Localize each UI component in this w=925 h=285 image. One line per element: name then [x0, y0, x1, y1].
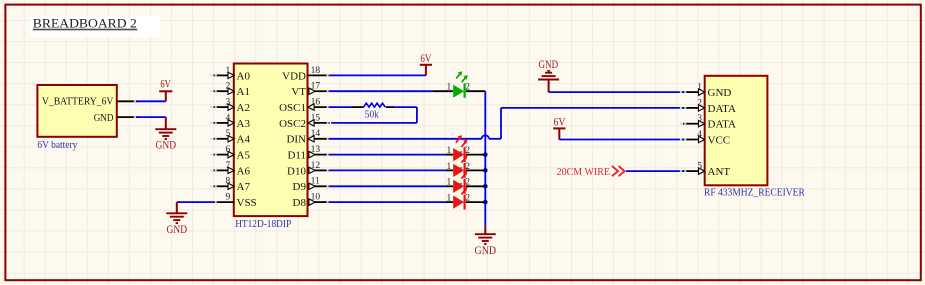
svg-text:2: 2 — [465, 146, 470, 156]
svg-text:6V: 6V — [160, 78, 171, 90]
svg-text:4: 4 — [697, 130, 702, 140]
svg-text:5: 5 — [226, 129, 231, 139]
svg-text:11: 11 — [311, 177, 320, 187]
IC U1 HT12D-18DIP body — [234, 64, 308, 231]
svg-text:10: 10 — [311, 193, 321, 203]
junction at LED DS4 cathode — [483, 184, 488, 189]
svg-text:9: 9 — [226, 193, 231, 203]
svg-text:DIN: DIN — [286, 134, 306, 146]
svg-text:A7: A7 — [237, 181, 251, 193]
power 6V (battery) — [159, 78, 172, 101]
svg-text:D11: D11 — [287, 150, 306, 162]
svg-text:A2: A2 — [237, 102, 250, 114]
svg-text:4: 4 — [226, 113, 231, 123]
svg-text:GND: GND — [539, 59, 559, 71]
svg-text:GND: GND — [156, 139, 177, 151]
pin 15 OSC2 — [279, 113, 333, 130]
svg-text:17: 17 — [311, 82, 321, 92]
wire D9 to LED — [330, 185, 446, 187]
wire DIN to receiver DATA — [330, 108, 683, 139]
svg-text:A1: A1 — [237, 86, 250, 98]
svg-text:6: 6 — [226, 145, 231, 155]
svg-text:1: 1 — [447, 162, 452, 172]
wire antenna to receiver ANT — [626, 170, 683, 172]
LED DS1 green — [433, 71, 485, 98]
svg-text:5: 5 — [697, 162, 702, 172]
wire 6V to receiver VCC — [559, 139, 683, 141]
ground (battery) — [155, 117, 176, 151]
svg-text:12: 12 — [311, 161, 321, 171]
svg-text:1: 1 — [447, 178, 452, 188]
svg-text:1: 1 — [226, 66, 231, 76]
svg-text:2: 2 — [465, 162, 470, 172]
battery pin 6V stub — [117, 100, 141, 102]
svg-text:3: 3 — [226, 98, 231, 108]
wire D11 to LED — [330, 154, 446, 156]
svg-text:D10: D10 — [287, 165, 306, 177]
pin 12 D10 — [287, 161, 333, 178]
svg-text:OSC2: OSC2 — [279, 118, 306, 130]
svg-text:1: 1 — [697, 83, 702, 93]
junction at LED DS5 cathode — [483, 200, 488, 205]
svg-text:HT12D-18DIP: HT12D-18DIP — [235, 219, 291, 230]
svg-text:A3: A3 — [237, 118, 251, 130]
svg-text:1: 1 — [447, 194, 452, 204]
svg-text:GND: GND — [94, 112, 114, 124]
svg-text:GND: GND — [475, 245, 497, 257]
pin 2 DATA (receiver) — [680, 98, 736, 115]
wire resistor to OSC2 — [331, 107, 417, 123]
svg-text:A6: A6 — [237, 165, 251, 177]
RF module U2 RF 433MHZ_RECEIVER body — [704, 76, 805, 199]
junction at LED DS3 cathode — [483, 168, 488, 173]
pin 2 A1 — [210, 82, 250, 99]
svg-text:VT: VT — [291, 86, 306, 98]
ground (receiver GND, inverted) — [538, 59, 559, 92]
pin 3 A2 — [210, 98, 250, 115]
svg-text:2: 2 — [465, 194, 470, 204]
battery BT (V_BATTERY_6V) — [37, 85, 116, 151]
svg-text:V_BATTERY_6V: V_BATTERY_6V — [42, 95, 114, 107]
LED DS5 red — [445, 183, 485, 210]
pin 7 A6 — [210, 161, 250, 178]
svg-text:2: 2 — [697, 98, 702, 108]
svg-text:18: 18 — [311, 66, 321, 76]
wire VSS to ground — [177, 201, 214, 203]
svg-text:16: 16 — [311, 98, 321, 108]
svg-text:GND: GND — [708, 87, 732, 99]
svg-text:6V battery: 6V battery — [37, 139, 77, 151]
svg-text:VCC: VCC — [708, 134, 731, 146]
resistor 50k — [352, 103, 395, 120]
pin 14 DIN — [286, 129, 333, 146]
pin 9 VSS — [210, 193, 256, 210]
pin 3 DATA (receiver) — [680, 114, 736, 131]
svg-text:A5: A5 — [237, 150, 251, 162]
svg-text:7: 7 — [226, 161, 231, 171]
ground (VSS) — [166, 202, 187, 236]
LED DS3 red — [445, 151, 485, 178]
battery pin GND stub — [117, 116, 141, 118]
wire LED bus vertical — [484, 91, 486, 226]
wire D10 to LED — [330, 169, 446, 171]
ground (LED bus) — [475, 226, 497, 257]
svg-text:OSC1: OSC1 — [279, 102, 306, 114]
svg-text:D9: D9 — [293, 181, 307, 193]
wire ground to receiver GND pin — [549, 91, 683, 93]
pin 5 A4 — [210, 129, 250, 146]
power 6V (VDD) — [420, 53, 432, 75]
svg-text:6V: 6V — [420, 53, 432, 65]
power 6V (VCC) — [553, 117, 566, 140]
LED DS4 red — [445, 167, 485, 194]
pin 10 D8 — [293, 193, 334, 210]
pin 13 D11 — [287, 145, 333, 162]
svg-text:8: 8 — [226, 177, 231, 187]
svg-text:DATA: DATA — [708, 119, 737, 131]
wire battery plus to 6V symbol — [137, 100, 166, 102]
svg-text:VSS: VSS — [237, 197, 257, 209]
svg-text:D8: D8 — [293, 197, 307, 209]
svg-text:6V: 6V — [554, 117, 567, 129]
svg-text:GND: GND — [167, 224, 188, 236]
svg-text:15: 15 — [311, 113, 321, 123]
pin 6 A5 — [210, 145, 250, 162]
wire D8 to LED — [330, 201, 446, 203]
svg-text:2: 2 — [226, 82, 231, 92]
svg-text:ANT: ANT — [708, 166, 731, 178]
svg-text:RF 433MHZ_RECEIVER: RF 433MHZ_RECEIVER — [704, 188, 805, 199]
svg-text:13: 13 — [311, 145, 321, 155]
svg-text:A4: A4 — [237, 134, 251, 146]
pin 11 D9 — [293, 177, 334, 194]
pin 18 VDD — [282, 66, 333, 83]
pin 4 VCC (receiver) — [680, 130, 730, 147]
svg-text:VDD: VDD — [282, 70, 306, 82]
wire VDD to 6V — [330, 74, 426, 76]
wire OSC1 to resistor — [330, 106, 352, 108]
svg-text:50k: 50k — [365, 109, 380, 120]
pin 5 ANT (receiver) — [680, 162, 731, 179]
pin 1 GND (receiver) — [680, 83, 732, 100]
title BREADBOARD 2 — [30, 16, 160, 37]
svg-text:A0: A0 — [237, 70, 251, 82]
svg-text:2: 2 — [465, 83, 470, 93]
LED DS2 red — [445, 135, 485, 162]
pin 16 OSC1 — [279, 98, 333, 115]
wire battery minus to ground — [137, 116, 166, 118]
junction at LED DS2 cathode — [483, 152, 488, 157]
svg-text:DATA: DATA — [708, 103, 737, 115]
svg-text:14: 14 — [311, 129, 321, 139]
pin 8 A7 — [210, 177, 250, 194]
pin 1 A0 — [210, 66, 250, 83]
svg-text:1: 1 — [447, 83, 452, 93]
svg-text:20CM WIRE: 20CM WIRE — [557, 166, 611, 178]
svg-text:BREADBOARD 2: BREADBOARD 2 — [33, 16, 137, 30]
svg-text:1: 1 — [447, 146, 452, 156]
svg-text:3: 3 — [697, 114, 702, 124]
pin 17 VT — [291, 82, 333, 99]
label 20CM WIRE — [557, 166, 625, 178]
pin 4 A3 — [210, 113, 250, 130]
wire VT to LED — [330, 90, 433, 92]
svg-text:2: 2 — [465, 178, 470, 188]
